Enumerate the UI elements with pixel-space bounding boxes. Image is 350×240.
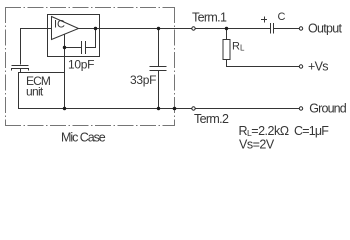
op-amp IC triangle	[52, 17, 79, 40]
terminal circle Term.2	[192, 107, 195, 110]
svg-text:IC: IC	[54, 19, 65, 31]
svg-text:Ground: Ground	[309, 102, 346, 116]
svg-text:Mic Case: Mic Case	[61, 131, 106, 145]
junction node rail left	[63, 107, 66, 110]
terminal circle Ground	[299, 107, 302, 110]
capacitor C coupling plates	[270, 23, 272, 34]
wire: ground rail Term.2 to Ground	[65, 108, 300, 110]
svg-text:Term.2: Term.2	[194, 112, 229, 126]
junction node 33pF bottom	[157, 107, 160, 110]
wire: 33pF branch upper	[158, 29, 160, 67]
wire: IC output to Term.1 and coupling cap	[79, 28, 271, 30]
wire: feedback node down to ground rail	[64, 48, 66, 109]
svg-text:33pF: 33pF	[130, 73, 156, 87]
svg-text:Vs=2V: Vs=2V	[239, 138, 275, 152]
capacitor 33pF plates	[150, 66, 167, 68]
wire: input from ECM capsule to IC amp input	[21, 29, 52, 65]
wire: 10pF right plate up to output node	[86, 29, 96, 48]
terminal circle Term.1	[192, 27, 195, 30]
wire: node to 10pF left plate	[65, 47, 82, 49]
svg-text:RL: RL	[232, 41, 245, 53]
junction node case-to-ground	[173, 107, 177, 111]
junction node RL top	[225, 27, 228, 30]
wire: RL bottom to +Vs	[227, 60, 300, 67]
capacitor C 10pF plates	[81, 41, 83, 54]
svg-text:Output: Output	[308, 22, 343, 36]
resistor RL body	[223, 40, 230, 60]
capacitor: ECM capsule plates	[12, 65, 29, 67]
polarity + mark	[261, 19, 267, 21]
svg-text:+Vs: +Vs	[308, 60, 328, 74]
wire: RL branch from Term.1 wire	[226, 29, 228, 40]
IC box outline	[48, 15, 100, 57]
junction node at IC output	[94, 27, 97, 30]
wire: IC feedback tap from triangle to node	[64, 34, 66, 48]
terminal circle Output	[299, 27, 302, 30]
svg-text:C: C	[278, 11, 286, 23]
junction node 33pF top	[157, 27, 160, 30]
wire: capsule to ECM unit box	[20, 69, 22, 73]
svg-text:RL=2.2kΩ: RL=2.2kΩ	[239, 124, 289, 138]
ECM unit box	[19, 73, 65, 109]
mic case enclosure (dash-dot border)	[5, 7, 175, 126]
svg-text:C=1μF: C=1μF	[294, 124, 329, 138]
svg-text:Term.1: Term.1	[192, 10, 227, 24]
wire: coupling cap to Output terminal	[274, 28, 299, 30]
svg-text:10pF: 10pF	[68, 58, 94, 72]
junction node feedback	[63, 46, 66, 49]
wire: 33pF branch lower	[158, 71, 160, 109]
terminal circle +Vs	[299, 65, 302, 68]
svg-text:unit: unit	[26, 85, 44, 99]
